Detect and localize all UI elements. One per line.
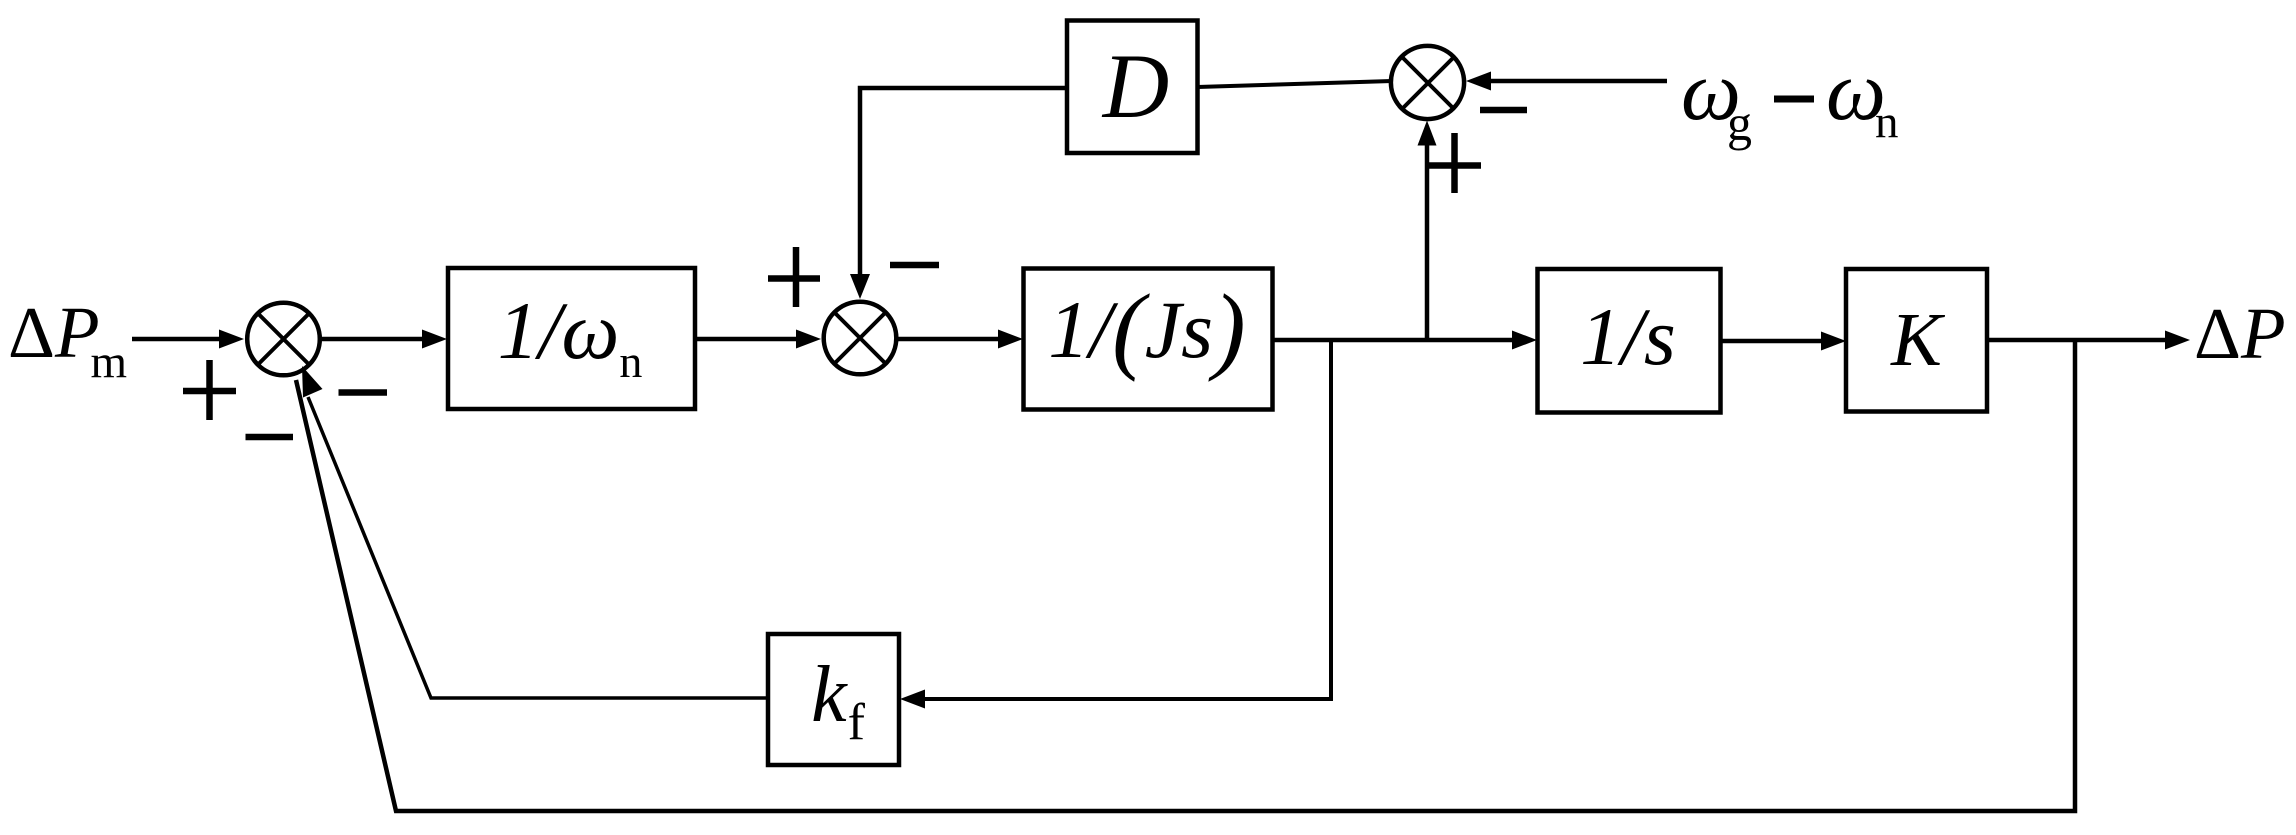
arrowhead into kf <box>900 690 925 709</box>
arrowhead into 1/s <box>1512 331 1537 350</box>
arrowhead up into S3 <box>1418 121 1437 146</box>
wire S1 to block 1/wn <box>320 337 424 342</box>
wire kf output to S1 <box>308 397 768 698</box>
summer S1 <box>247 303 320 376</box>
svg-text:1/(Js): 1/(Js) <box>1048 275 1245 383</box>
arrowhead output <box>2165 331 2190 350</box>
wire branch down to kf <box>924 340 1331 699</box>
svg-text:1/ωn: 1/ωn <box>498 285 643 387</box>
main wire 1/(Js) to 1/s with nodes <box>1272 338 1514 343</box>
arrowhead into S1 <box>219 330 244 349</box>
wire outer feedback loop <box>296 340 2075 811</box>
wire 1/wn to S2 <box>695 337 799 342</box>
arrowhead down into S2 <box>850 274 870 299</box>
block B1 1/wn <box>448 268 695 409</box>
wire input to S1 <box>132 337 222 342</box>
plus sign at S2 <box>768 247 820 307</box>
plus sign below S3 <box>1429 133 1481 193</box>
label wg - wn <box>1681 44 1899 151</box>
minus sign right of S3 <box>1480 107 1527 114</box>
block B5 kf <box>768 634 899 765</box>
block B4 K <box>1846 269 1987 412</box>
block B3 1/s <box>1538 269 1721 413</box>
wire wg-wn into S3 <box>1490 79 1667 84</box>
svg-text:D: D <box>1101 35 1169 137</box>
minus glyph in wg-wn <box>1774 96 1814 103</box>
svg-text:1/s: 1/s <box>1580 291 1676 382</box>
plus sign at S1 <box>183 360 236 420</box>
arrowhead into 1/wn <box>422 330 447 349</box>
block B2 1/(Js) <box>1024 269 1273 410</box>
svg-text:g: g <box>1727 95 1752 151</box>
arrowhead into 1/(Js) <box>998 330 1023 349</box>
svg-text:kf: kf <box>811 651 866 751</box>
wire 1/s to K <box>1721 339 1824 344</box>
wire node up into S3 <box>1425 144 1430 341</box>
arrowhead into K <box>1821 332 1846 351</box>
summer S2 <box>824 302 897 375</box>
arrowhead into S3 right <box>1466 72 1491 91</box>
minus sign right of S2 feed <box>890 262 939 269</box>
arrowhead diagonal into S1 <box>302 366 323 398</box>
minus sign below S1 <box>246 434 294 441</box>
wire S2 to block 1/(Js) <box>896 337 1000 342</box>
svg-text:ΔP: ΔP <box>2194 293 2286 374</box>
minus sign right of S1 <box>339 389 388 396</box>
wire D output down into S2 <box>860 88 1067 276</box>
svg-text:ΔPm: ΔPm <box>8 292 127 388</box>
wire S3 to D <box>1198 81 1393 87</box>
svg-text:n: n <box>1875 97 1899 149</box>
output wire K to dP <box>1987 338 2167 343</box>
block D <box>1067 21 1198 154</box>
summer S3 <box>1391 46 1464 119</box>
svg-text:K: K <box>1890 298 1945 382</box>
arrowhead into S2 <box>796 330 821 349</box>
